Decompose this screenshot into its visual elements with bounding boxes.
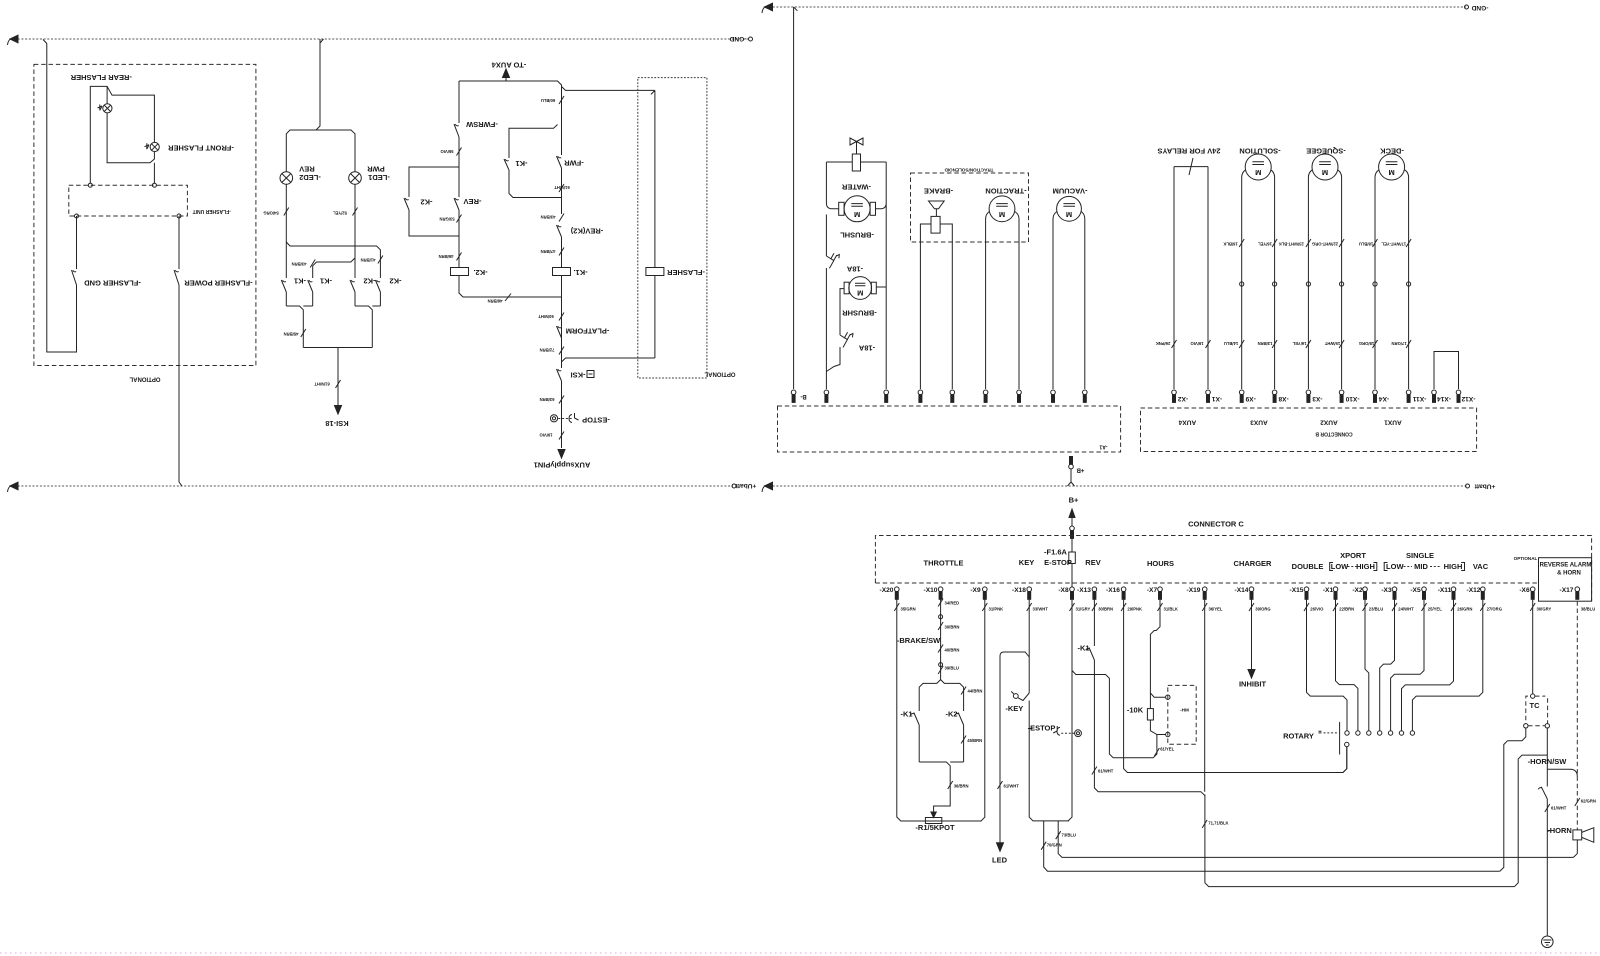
pins connector C row (895, 587, 1580, 599)
svg-text:73/BLU: 73/BLU (1062, 832, 1076, 837)
svg-text:-X5: -X5 (1410, 587, 1421, 594)
label 60/WHT (rotated) (559, 313, 564, 321)
svg-text:-LED2: -LED2 (299, 173, 321, 182)
wire brushR right terminal (876, 286, 886, 288)
wire B+ to fuse (1071, 538, 1073, 552)
pin brake right (950, 390, 955, 402)
svg-text:-K2: -K2 (945, 710, 957, 719)
wire 24V jumper (1174, 158, 1208, 389)
svg-text:31/GRY: 31/GRY (1076, 607, 1091, 612)
wire branch to K2 right contact (286, 242, 380, 278)
wire relay circuit top edge (459, 81, 562, 123)
wire TC left to estop tap A (1500, 728, 1526, 871)
wire water box top edge (826, 161, 886, 163)
node TC bottom-right circle (1545, 724, 1549, 728)
svg-text:ROTARY: ROTARY (1283, 731, 1314, 740)
label 61/WHT key (998, 781, 1003, 789)
wire -X3 to rotary (1380, 599, 1395, 731)
arrow LED (997, 843, 1004, 852)
svg-text:-K1: -K1 (900, 710, 912, 719)
wire X14-X12 jumper (1434, 352, 1459, 390)
contact -K1 a (281, 280, 286, 306)
svg-text:-ESTOP: -ESTOP (1028, 724, 1056, 733)
svg-text:-X11: -X11 (1412, 395, 1426, 402)
wire -X18 key chain (1028, 599, 1030, 693)
svg-text:-18A: -18A (846, 264, 863, 273)
wire -X1 to rotary (1336, 599, 1358, 731)
node +Ubatt right end circle (1466, 484, 1470, 488)
svg-text:-GND: -GND (729, 35, 746, 42)
label 61/YEL (1154, 748, 1159, 756)
contact -PLATFORM (557, 326, 562, 338)
svg-text:17/WHT-YEL: 17/WHT-YEL (1381, 241, 1406, 246)
box TC (dashed) (1526, 696, 1548, 726)
svg-text:HIGH: HIGH (1444, 562, 1463, 571)
svg-text:AUX2: AUX2 (1320, 418, 1338, 425)
svg-text:61/WHT: 61/WHT (554, 185, 570, 190)
box REVERSE ALARM & HORN (1539, 558, 1592, 602)
svg-text:36/BRN: 36/BRN (954, 784, 969, 789)
arrow +Ubatt right-half end (765, 482, 773, 490)
node HM lower circle (1166, 732, 1170, 736)
motor -VACUUM (1057, 196, 1082, 221)
svg-text:43/BRN: 43/BRN (292, 261, 307, 266)
svg-text:18/ORG: 18/ORG (1359, 341, 1374, 346)
svg-text:TRACTION/SOLENOID: TRACTION/SOLENOID (944, 167, 994, 172)
svg-text:-K1.: -K1. (573, 268, 587, 277)
wire 54/ORG (285, 184, 287, 278)
label 39/BLU (938, 666, 943, 674)
label 45/BRN throttle (961, 736, 966, 744)
svg-text:-X9: -X9 (970, 587, 981, 594)
svg-text:CONNECTOR B: CONNECTOR B (1315, 430, 1353, 436)
svg-text:33/WHT: 33/WHT (1033, 607, 1049, 612)
wire -X8 jog to hourmeter (1072, 671, 1157, 758)
svg-text:-FLASHER GND: -FLASHER GND (84, 278, 141, 287)
svg-text:+Ubatt: +Ubatt (735, 482, 757, 489)
page boundary dotted line bottom (0, 952, 1600, 954)
resistor -10K (1147, 709, 1153, 720)
svg-text:-REV: -REV (464, 197, 482, 206)
svg-text:THROTTLE: THROTTLE (924, 559, 964, 568)
node circle brake sw upper (939, 615, 943, 619)
wire -X20 throttle low (897, 599, 925, 821)
svg-text:M: M (1322, 168, 1328, 177)
svg-text:OPTIONAL: OPTIONAL (704, 371, 735, 377)
pin vacuum right (1083, 390, 1088, 402)
svg-text:26/PNK: 26/PNK (1156, 341, 1171, 346)
wire K2 coil to common (459, 276, 562, 298)
svg-text:-WATER: -WATER (841, 182, 871, 191)
pin B+ feed (1070, 526, 1075, 538)
svg-text:24V FOR RELAYS: 24V FOR RELAYS (1157, 146, 1220, 155)
svg-text:61/WHT: 61/WHT (1004, 784, 1020, 789)
svg-text:PWR: PWR (367, 164, 385, 173)
net GND right rail (769, 6, 1466, 8)
svg-text:17/GRN: 17/GRN (1391, 341, 1406, 346)
wire K1 bypass branch (509, 125, 562, 198)
svg-text:26/VIO: 26/VIO (1310, 607, 1324, 612)
svg-text:-KEY: -KEY (1005, 704, 1023, 713)
svg-text:AUX4: AUX4 (1178, 418, 1196, 425)
svg-text:-K2: -K2 (420, 197, 432, 206)
motor -BRUSHR (849, 277, 872, 300)
label 23/WHT-BLK (rotated) (1306, 239, 1311, 247)
wire brake legs (920, 224, 952, 389)
wire left leg lower (825, 215, 827, 390)
breaker -18A lower (840, 332, 853, 347)
label 61/WHT mid (rotated) (559, 184, 564, 192)
svg-text:+Ubatt: +Ubatt (1474, 482, 1496, 489)
potentiometer -R1/5KPOT (931, 812, 936, 818)
svg-text:13/BRN: 13/BRN (1258, 341, 1273, 346)
svg-text:26/GRN: 26/GRN (1457, 607, 1472, 612)
svg-text:19/VIO: 19/VIO (539, 432, 553, 437)
wire 52/YEL (313, 184, 355, 278)
contact -K2 throttle (958, 713, 963, 763)
wire solution legs (1242, 170, 1275, 389)
label 47/BRN (rotated) (559, 248, 564, 256)
contact -K1 throttle (914, 713, 919, 763)
contact -K1 rev (1089, 648, 1094, 661)
svg-text:60/WHT: 60/WHT (538, 314, 554, 319)
svg-text:REV: REV (1085, 558, 1100, 567)
svg-text:40/BRN: 40/BRN (945, 647, 960, 652)
svg-text:61/WHT: 61/WHT (1551, 806, 1567, 811)
svg-text:KEY: KEY (1019, 558, 1034, 567)
svg-text:-X6: -X6 (1519, 587, 1530, 594)
motor -WATER (844, 196, 870, 222)
svg-text:53/GRN: 53/GRN (439, 216, 454, 221)
motor -TRACTION (989, 196, 1015, 222)
svg-text:41/BRN: 41/BRN (361, 257, 376, 262)
wire GND feed to LED pair (286, 39, 355, 172)
contact -K2 a (350, 280, 355, 306)
label 46/BRN upper (rotated) (457, 253, 462, 261)
svg-text:-FWRSW: -FWRSW (465, 120, 498, 129)
wire estop tap A 70/GRN (1044, 821, 1500, 871)
pin B- (791, 390, 796, 402)
motor -SOLUTION (1245, 154, 1271, 180)
svg-text:-X16: -X16 (1106, 587, 1120, 594)
label 19/VIO (rotated) (559, 432, 564, 440)
wire -X10 brake/sw chain (940, 599, 942, 679)
wire alarm riser (1514, 755, 1547, 887)
svg-text:-ESTOP: -ESTOP (582, 415, 610, 424)
svg-text:18/BLU: 18/BLU (1359, 241, 1373, 246)
svg-text:-PLATFORM: -PLATFORM (566, 326, 610, 335)
svg-text:-K1: -K1 (1077, 644, 1089, 653)
svg-text:27/ORG: 27/ORG (1487, 607, 1502, 612)
label 61/WHT (rotated) (336, 380, 341, 388)
svg-text:15/WHT: 15/WHT (1324, 341, 1340, 346)
node +Ubatt left end circle (732, 484, 736, 488)
wire -X15 to rotary (1307, 599, 1348, 731)
net +Ubatt right rail (769, 485, 1467, 487)
label 15/WHT (rotated) (1339, 340, 1344, 348)
arrow GND left end (10, 35, 18, 43)
wire vacuum legs (1053, 212, 1085, 390)
svg-text:-K2.: -K2. (473, 268, 487, 277)
wire estop loop left (1029, 701, 1069, 821)
rotary wiper bar (1339, 722, 1341, 755)
label 43/BRN (rotated) (310, 260, 315, 268)
svg-text:CHARGER: CHARGER (1234, 559, 1273, 568)
wire water right leg (876, 162, 887, 389)
svg-text:55/VIO: 55/VIO (440, 149, 454, 154)
valve water (850, 138, 863, 154)
contact -HORN/SW (1541, 787, 1547, 935)
svg-text:23/WHT-BLK: 23/WHT-BLK (1279, 241, 1304, 246)
svg-text:61/WHT: 61/WHT (314, 381, 330, 386)
node circle brake sw lower (939, 663, 943, 667)
svg-text:-X17: -X17 (1560, 587, 1574, 594)
wire -X8 estop right (1068, 599, 1072, 821)
svg-text:23/BLU: 23/BLU (1369, 607, 1383, 612)
svg-text:M: M (1388, 168, 1394, 177)
contact -K1 b (308, 280, 313, 306)
svg-text:& HORN: & HORN (1557, 571, 1581, 577)
wire -X11 to rotary (1402, 599, 1454, 731)
svg-text:CONNECTOR C: CONNECTOR C (1188, 520, 1244, 529)
svg-text:22/BRN: 22/BRN (1339, 607, 1354, 612)
switch -FLASHER GND (72, 216, 77, 288)
svg-text:43/BRN: 43/BRN (541, 214, 556, 219)
svg-text:-X11: -X11 (1438, 587, 1452, 594)
svg-text:70/GRN: 70/GRN (1047, 842, 1062, 847)
switch -ESTOP lower (1075, 730, 1082, 737)
svg-text:-F1.6A: -F1.6A (1044, 548, 1068, 557)
svg-text:36/YEL: 36/YEL (1209, 607, 1223, 612)
splice circles on motor legs (1240, 282, 1244, 286)
motor -SQUEGEE (1312, 154, 1338, 180)
label 61/WHT horn (1545, 804, 1550, 812)
contact -REV(K2) (557, 225, 562, 268)
label 71,71/BLK (1202, 820, 1207, 828)
svg-text:-REV(K2): -REV(K2) (570, 226, 603, 235)
svg-text:-A1: -A1 (1099, 443, 1107, 449)
svg-text:M: M (857, 289, 863, 298)
wire brushR left terminal (826, 289, 844, 372)
svg-text:-HORN: -HORN (1547, 826, 1572, 835)
svg-text:71,71/BLK: 71,71/BLK (1208, 820, 1228, 825)
solenoid -BRAKE funnel (929, 201, 945, 216)
wire -X19 alarm chain (1201, 599, 1514, 886)
wire estop tap B 73/BLU (1058, 821, 1573, 858)
svg-text:+B: +B (1076, 467, 1085, 473)
contact -K2 b (375, 280, 380, 306)
wire rotary common (1343, 747, 1347, 773)
label 16/YEL (rotated) (1272, 239, 1277, 247)
svg-text:-X12: -X12 (1467, 587, 1481, 594)
svg-text:LOW: LOW (1386, 562, 1404, 571)
wire -X2 to rotary (1365, 599, 1369, 731)
svg-text:-X13: -X13 (1077, 587, 1091, 594)
label 61/WHT rev (1092, 767, 1097, 775)
label 30/BRN brake (938, 622, 943, 630)
wire GND drop into optional box (43, 40, 77, 353)
wire -X12 to rotary (1412, 599, 1482, 731)
arrow AUXsupplyPIN1 (558, 450, 565, 459)
label 18/ORG (rotated) (1373, 340, 1378, 348)
box -FLASHER optional (638, 78, 707, 378)
arrow GND right-half end (765, 3, 773, 11)
label 63/BRN (rotated) (559, 396, 564, 404)
wire TC right horn feed (1546, 728, 1548, 787)
lamp -LED1 PWR (349, 172, 362, 185)
wire -X6 to TC (1532, 599, 1534, 694)
fuse -F1.6A (1069, 552, 1076, 564)
wire deck legs (1375, 170, 1409, 389)
svg-text:AUXsupplyPIN1: AUXsupplyPIN1 (534, 460, 591, 469)
svg-text:-X2: -X2 (1352, 587, 1363, 594)
wire water left leg (826, 162, 838, 209)
svg-text:-X8: -X8 (1058, 587, 1069, 594)
svg-text:-SOLUTION: -SOLUTION (1239, 146, 1280, 155)
label 22/WHT-ORG (rotated) (1339, 239, 1344, 247)
svg-text:39/ORG: 39/ORG (1255, 607, 1270, 612)
svg-text:-K2: -K2 (389, 276, 401, 285)
pin brake left (918, 390, 923, 402)
svg-text:-X14: -X14 (1437, 395, 1451, 402)
svg-text:-R1/5KPOT: -R1/5KPOT (915, 823, 955, 832)
svg-text:-TO AUX4: -TO AUX4 (491, 60, 526, 69)
svg-text:-X8: -X8 (1278, 395, 1289, 402)
svg-text:XPORT: XPORT (1340, 551, 1366, 560)
svg-text:31/PNK: 31/PNK (989, 607, 1004, 612)
svg-text:-K1: -K1 (515, 159, 527, 168)
svg-text:M: M (999, 210, 1005, 219)
svg-text:14/BLU: 14/BLU (1224, 341, 1238, 346)
wire lamp link bottom (107, 113, 154, 183)
svg-text:-X4: -X4 (1379, 395, 1390, 402)
box -FLASHER UNIT (dashed) (69, 185, 188, 216)
svg-text:35/GRN: 35/GRN (901, 607, 916, 612)
label 41/BRN (rotated) (378, 256, 383, 264)
svg-text:-TRACTION: -TRACTION (985, 186, 1026, 195)
terminal circles on flasher unit (88, 183, 92, 187)
contact -KSI (557, 358, 562, 448)
svg-text:LED: LED (992, 855, 1008, 864)
svg-text:HIGH: HIGH (1356, 562, 1375, 571)
svg-text:DOUBLE: DOUBLE (1292, 562, 1324, 571)
svg-text:45/BRN: 45/BRN (967, 738, 982, 743)
svg-text:-KSI: -KSI (571, 370, 586, 379)
svg-text:-K1: -K1 (320, 276, 332, 285)
svg-text:-SQUEGEE: -SQUEGEE (1306, 146, 1346, 155)
wire flasher return branch (562, 358, 655, 362)
wire throttle merge to pot (919, 762, 963, 813)
label 26/PNK (rotated) (1172, 340, 1177, 348)
svg-text:REVERSE ALARM: REVERSE ALARM (1540, 563, 1592, 569)
svg-text:-X18: -X18 (1012, 587, 1026, 594)
pin vacuum left (1051, 390, 1056, 402)
svg-text:-GND: -GND (1471, 4, 1488, 11)
svg-text:-REAR FLASHER: -REAR FLASHER (70, 73, 132, 82)
wire B- drop (794, 7, 798, 389)
svg-text:MID: MID (1414, 562, 1428, 571)
wire -X13 rev chain (1094, 599, 1201, 791)
switch -KEY (1013, 694, 1018, 699)
switch -ESTOP (rotated symbol) (550, 415, 557, 422)
horn speaker symbol (1573, 830, 1582, 840)
wire squegee legs (1308, 170, 1341, 389)
arrow +Ubatt left end (10, 482, 18, 490)
node GND right end circle (1465, 5, 1469, 9)
svg-text:19/VIO: 19/VIO (1190, 341, 1204, 346)
svg-text:-BRUSHR: -BRUSHR (842, 308, 877, 317)
svg-text:25/YEL: 25/YEL (1428, 607, 1442, 612)
svg-text:-LED1: -LED1 (368, 173, 390, 182)
label 40/BRN (938, 645, 943, 653)
svg-text:16/BLK: 16/BLK (1223, 241, 1237, 246)
label 53/GRN (rotated) (457, 215, 462, 223)
contact -REV (454, 167, 459, 222)
svg-text:-X2: -X2 (1178, 395, 1189, 402)
label 72/BRN (rotated) (559, 347, 564, 355)
svg-text:22/WHT-ORG: 22/WHT-ORG (1312, 241, 1338, 246)
box OPTIONAL flasher assembly (34, 64, 256, 365)
svg-text:60/BLU: 60/BLU (541, 98, 555, 103)
arrow to KSI-18 (335, 406, 342, 415)
bracket single (1384, 563, 1387, 571)
svg-text:31/BLK: 31/BLK (1164, 607, 1178, 612)
svg-text:B+: B+ (1069, 496, 1079, 505)
box CONNECTOR C (dashed) (875, 536, 1591, 602)
svg-text:SINGLE: SINGLE (1406, 551, 1434, 560)
svg-text:-FLASHER POWER: -FLASHER POWER (184, 278, 253, 287)
svg-text:-X1: -X1 (1212, 395, 1223, 402)
svg-text:-X7: -X7 (1147, 587, 1158, 594)
svg-text:-X9: -X9 (1245, 395, 1256, 402)
svg-text:-FLASHER UNIT: -FLASHER UNIT (193, 208, 231, 214)
svg-text:INHIBIT: INHIBIT (1239, 679, 1267, 688)
svg-text:-VACUUM: -VACUUM (1053, 186, 1088, 195)
label 17/GRN (rotated) (1406, 340, 1411, 348)
switch ROTARY contacts (1345, 731, 1415, 747)
label 16/YEL lower (rotated) (1306, 340, 1311, 348)
svg-text:-X3: -X3 (1312, 395, 1323, 402)
svg-text:30/BRN: 30/BRN (1098, 607, 1113, 612)
wire -X7 hourmeter feed (1150, 599, 1165, 708)
svg-text:-BRAKE/SW: -BRAKE/SW (897, 636, 941, 645)
label 19/VIO (rotated) (1206, 340, 1211, 348)
svg-text:-FLASHER: -FLASHER (666, 268, 704, 277)
svg-text:-X10: -X10 (1345, 395, 1359, 402)
pin water left (824, 390, 829, 402)
svg-text:16/YEL: 16/YEL (1258, 241, 1272, 246)
net GND left rail (14, 38, 750, 40)
motor -DECK (1379, 154, 1405, 180)
svg-text:-K2: -K2 (363, 276, 375, 285)
wire flasher inner 60/BLU drop (651, 90, 655, 358)
label 13/BRN (rotated) (1272, 340, 1277, 348)
svg-text:61/WHT: 61/WHT (1098, 768, 1114, 773)
node GND left end circle (749, 37, 753, 41)
wire -X17 dashed (1576, 601, 1578, 830)
pin traction right (1017, 390, 1022, 402)
wire traction legs (986, 212, 1019, 390)
svg-text:29/PNK: 29/PNK (1127, 607, 1142, 612)
lamp -FRONT FLASHER (150, 142, 159, 151)
switch -FWRSW (454, 81, 459, 167)
svg-text:-DECK: -DECK (1380, 146, 1404, 155)
wire K2 bypass branch (409, 167, 459, 236)
arrow INHIBIT (1248, 670, 1255, 679)
svg-text:34/RED: 34/RED (945, 601, 960, 606)
label 16/BLK (rotated) (1239, 239, 1244, 247)
node HM upper circle (1166, 695, 1170, 699)
